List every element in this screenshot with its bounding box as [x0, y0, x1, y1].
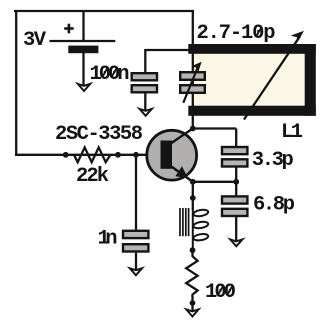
wire: collector node horizontal [193, 127, 236, 129]
ground (battery) [78, 84, 90, 91]
junction dot 1n tap [133, 152, 139, 158]
capacitor C5 1n [123, 231, 148, 252]
junction dot 22k right [115, 152, 121, 158]
transistor Q1 body [147, 130, 197, 180]
trimmer capacitor arrowhead [191, 62, 201, 72]
wire: 100n to ground [144, 94, 146, 111]
slashed zeros of 100 [218, 286, 233, 296]
inductor L2 core lines [180, 208, 189, 236]
junction dot 22k left [63, 152, 69, 158]
wire: battery drop from rail [82, 11, 84, 41]
svg-text:22k: 22k [76, 165, 109, 188]
svg-text:L1: L1 [281, 121, 303, 144]
inductor L1 bottom bar [188, 106, 315, 116]
trimmer capacitor arrow [183, 68, 197, 103]
ground (6.8p) [230, 239, 242, 246]
svg-text:100n: 100n [90, 63, 130, 86]
wire: 6.8p to ground [235, 216, 237, 241]
battery B1 bottom plate [68, 46, 98, 54]
svg-text:3V: 3V [23, 29, 47, 52]
capacitor C4 6.8p [222, 196, 247, 216]
inductor L1 top bar [188, 44, 315, 54]
wire: top supply rail [14, 10, 194, 12]
wire: between 3.3p and 6.8p [235, 168, 237, 197]
inductor L1 tuning arrow diagonal [244, 36, 300, 119]
trimmer capacitor C2 2.7-10p plates [180, 72, 205, 93]
wire: 100n branch horizontal [145, 49, 190, 51]
battery B1 top plate [50, 40, 116, 42]
svg-text:2SC-3358: 2SC-3358 [55, 123, 143, 146]
junction dot coil top [190, 195, 196, 201]
transistor base bar [161, 141, 173, 169]
wire: battery to ground [82, 53, 84, 85]
capacitor C3 3.3p [222, 147, 247, 167]
transistor collector line [170, 129, 193, 145]
junction dot collector node [190, 126, 196, 132]
wire: 1n to ground [135, 253, 137, 270]
inductor L1 interior [194, 54, 305, 106]
svg-text:100: 100 [205, 281, 236, 304]
battery plus sign [64, 24, 74, 34]
resistor R1 22k zigzag [74, 147, 111, 162]
wire: coil link segments [192, 208, 194, 251]
inductor L1 tuning arrowhead [291, 31, 304, 42]
wire: tank left vertical (rail to bottom bar, through trimmer) [192, 10, 194, 116]
junction dot coil bottom / resistor top [190, 247, 196, 253]
ground (100n) [140, 109, 152, 116]
svg-text:3.3p: 3.3p [252, 149, 294, 172]
wire: drop to 3.3p [235, 129, 237, 148]
wire: left rail [15, 10, 17, 156]
resistor R2 100 zigzag [186, 252, 197, 298]
ground (100 resistor) [186, 309, 198, 316]
inductor L2 winding loops [193, 209, 209, 241]
transistor emitter line [170, 166, 193, 182]
capacitor C1 100n [132, 73, 157, 92]
inductor L1 right bar [305, 44, 316, 116]
wire: emitter down to coil [192, 182, 194, 210]
transistor emitter arrowhead [175, 166, 188, 178]
junction dot resistor bottom [190, 300, 196, 306]
junction dot 3.3p/6.8p node [233, 179, 239, 185]
wire: tank bottom to collector node [192, 115, 194, 130]
svg-text:6.8p: 6.8p [253, 193, 295, 216]
junction dot emitter node [190, 179, 196, 185]
svg-text:1n: 1n [98, 227, 118, 250]
ground (1n) [130, 268, 142, 275]
svg-text:2.7-10p: 2.7-10p [197, 22, 276, 45]
slashed zero of 2.7-10p [256, 27, 262, 37]
slashed zeros of 100n [102, 68, 117, 78]
wire: 100n branch vertical [144, 49, 146, 73]
wire: resistor to ground [191, 298, 193, 311]
wire: 1n drop [135, 155, 137, 231]
wire: base wire [15, 154, 147, 156]
wire: emitter node horizontal [193, 181, 236, 183]
